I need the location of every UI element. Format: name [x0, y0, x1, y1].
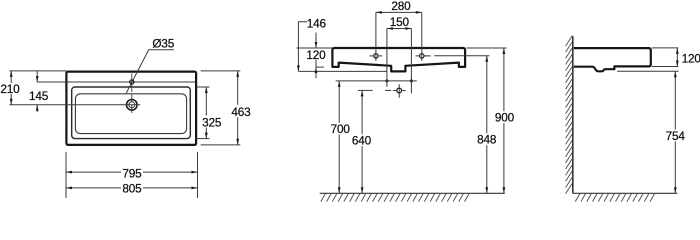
- svg-text:325: 325: [202, 116, 222, 130]
- basin bottom (plan): [75, 94, 186, 134]
- svg-text:146: 146: [307, 16, 327, 30]
- svg-text:145: 145: [29, 89, 49, 103]
- dim 805 line: [66, 187, 121, 189]
- basin rim (plan): [72, 87, 191, 139]
- 640 reference line: [358, 89, 373, 91]
- dim 120 bottom extension tick: [316, 66, 324, 68]
- svg-text:150: 150: [390, 15, 410, 29]
- dim 150 extension lines: [386, 29, 388, 87]
- svg-text:120: 120: [306, 48, 326, 62]
- svg-text:700: 700: [331, 122, 351, 136]
- washbasin side profile: [574, 48, 651, 71]
- dim 146 bracket: [298, 22, 307, 72]
- floor line (front view): [320, 192, 505, 194]
- junction dots on 700 line: [385, 79, 388, 82]
- left fixing hole crosshair: [370, 55, 374, 57]
- drain crosshair (front): [393, 90, 396, 92]
- dim 325 line: [205, 87, 207, 116]
- washbasin outer rect (plan): [66, 72, 196, 145]
- dim 120 extensions (side): [652, 47, 678, 49]
- 700 reference line: [336, 80, 417, 82]
- floor line (side view): [573, 192, 678, 194]
- dim 463 line: [237, 71, 239, 105]
- wall hatching: [566, 36, 573, 194]
- wall line: [572, 36, 574, 193]
- 848 reference line: [425, 55, 431, 57]
- svg-text:900: 900: [495, 111, 515, 125]
- svg-text:463: 463: [231, 105, 251, 119]
- dim 280 extension lines: [375, 12, 377, 60]
- dim 150 line: [387, 28, 412, 30]
- dim 900 line: [503, 48, 505, 111]
- leader line for Ø35: [126, 50, 174, 93]
- 146 reference line: [298, 70, 387, 72]
- dim 640 line: [361, 90, 363, 134]
- dim 210 extension top: [9, 70, 66, 72]
- dim 280 line: [376, 11, 422, 13]
- svg-text:280: 280: [391, 0, 411, 13]
- faucet hole Ø35 (plan): [130, 80, 134, 84]
- centerline through faucet and drain: [131, 74, 133, 116]
- dim 120 line (side): [676, 48, 678, 67]
- dim 795 line: [66, 171, 121, 173]
- svg-text:120: 120: [682, 51, 700, 65]
- dim 210 extension bottom + drain cross arm: [9, 104, 140, 106]
- right fixing hole crosshair: [416, 55, 420, 57]
- dim 325 extensions: [196, 86, 209, 88]
- svg-text:805: 805: [122, 182, 142, 196]
- floor hatching (side view): [575, 194, 654, 202]
- svg-text:848: 848: [477, 133, 497, 147]
- floor hatching (front view): [321, 194, 469, 202]
- dim 120 top extension (sink top edge extended): [297, 47, 333, 49]
- svg-text:640: 640: [352, 134, 372, 148]
- dim 210 line: [10, 71, 12, 83]
- dim 145 line (arrows outside): [36, 71, 38, 82]
- dim 754 line: [674, 71, 676, 129]
- dim 848 line: [486, 56, 488, 133]
- dim 700 line: [338, 81, 340, 123]
- svg-text:210: 210: [0, 82, 20, 96]
- 754 reference line: [617, 70, 679, 72]
- svg-text:795: 795: [122, 166, 142, 180]
- dim 463 extension top: [201, 70, 241, 72]
- dim 463 extension bottom: [201, 144, 241, 146]
- svg-text:754: 754: [666, 129, 686, 143]
- washbasin front profile: [332, 48, 465, 71]
- bottom extension lines (plan): [65, 152, 67, 198]
- 900 reference line: [467, 47, 507, 49]
- dim 120 line (arrows outside): [315, 33, 317, 48]
- svg-text:Ø35: Ø35: [152, 36, 174, 50]
- drain outer circle (plan): [127, 100, 138, 111]
- drain inner circle (plan): [129, 102, 135, 108]
- deck back line (plan): [37, 81, 195, 83]
